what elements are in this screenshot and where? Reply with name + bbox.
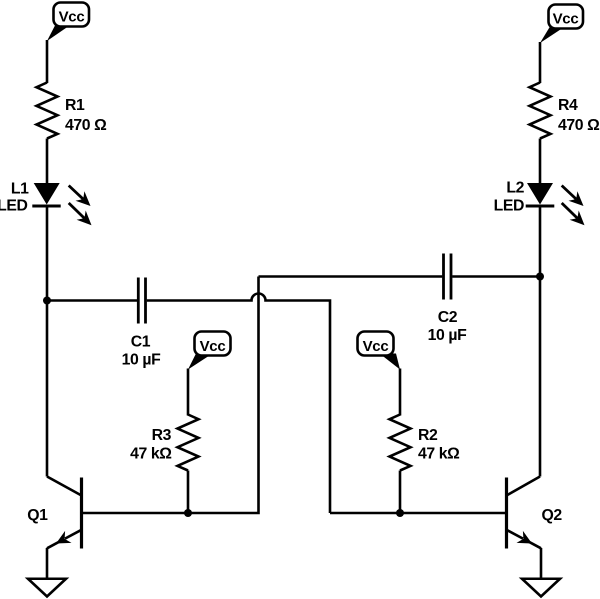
resistor R2	[390, 415, 411, 471]
power symbol Vcc (supply of R2)	[358, 332, 401, 370]
svg-text:R1: R1	[65, 97, 85, 114]
wire Q1 base rail (Q1 base to R3 node)	[82, 512, 189, 515]
wire node A to C1 left plate	[47, 299, 137, 302]
wire Q2 emitter to ground	[540, 548, 543, 579]
svg-text:10 µF: 10 µF	[122, 352, 161, 369]
capacitor C2	[444, 254, 452, 300]
power symbol Vcc (supply of R1)	[47, 3, 89, 42]
resistor R1	[37, 83, 58, 139]
wire LED L2 to node D	[539, 206, 542, 277]
svg-text:470 Ω: 470 Ω	[65, 117, 107, 134]
wire node A to Q1 collector	[46, 301, 49, 477]
svg-text:470 Ω: 470 Ω	[558, 117, 600, 134]
svg-text:Q2: Q2	[542, 507, 563, 524]
ground (Q1 emitter)	[28, 579, 66, 597]
junction node B (Q1 base / R3)	[184, 509, 192, 517]
svg-text:47 kΩ: 47 kΩ	[130, 446, 172, 463]
svg-text:Vcc: Vcc	[200, 338, 226, 355]
capacitor C1	[138, 278, 145, 324]
svg-text:L1: L1	[11, 181, 29, 198]
junction node C (Q2 base / R2)	[396, 509, 404, 517]
wire R2 to Q2 base node	[399, 471, 402, 514]
svg-text:LED: LED	[0, 198, 28, 215]
LED L1	[32, 183, 60, 206]
wire Vcc to R2	[399, 369, 402, 416]
svg-text:LED: LED	[494, 198, 524, 215]
svg-text:Vcc: Vcc	[59, 9, 85, 26]
LED L2 light emission arrows	[562, 186, 585, 226]
svg-text:47 kΩ: 47 kΩ	[418, 446, 460, 463]
wire Vcc to R3	[187, 369, 190, 416]
power symbol Vcc (supply of R4)	[540, 5, 583, 44]
ground (Q2 emitter)	[522, 579, 560, 597]
resistor R3	[178, 415, 199, 471]
wire Q2 base rail (corner to R2 node)	[330, 512, 400, 515]
wire Vcc to R4	[539, 42, 542, 83]
svg-text:Vcc: Vcc	[363, 338, 389, 355]
wire R3 to Q1 base node	[187, 471, 190, 514]
junction node A (Q1 collector / C1 plate)	[43, 297, 51, 305]
svg-text:L2: L2	[506, 180, 524, 197]
wire R4 to LED L2	[539, 139, 542, 185]
svg-text:R2: R2	[418, 427, 438, 444]
wire node D to Q2 collector	[539, 277, 542, 477]
wire riser to C2 left plate	[259, 275, 443, 278]
wire C1 right plate to Q2 base branch (hops over C2-Q1 wire)	[147, 294, 330, 514]
svg-text:R3: R3	[152, 427, 172, 444]
resistor R4	[530, 83, 551, 139]
svg-text:Vcc: Vcc	[553, 11, 579, 28]
LED L2	[526, 183, 555, 206]
transistor Q1	[47, 477, 82, 549]
svg-text:C1: C1	[131, 334, 151, 351]
wire R2 node to Q2 base	[400, 512, 505, 515]
wire C2 right plate to node D	[452, 275, 540, 278]
svg-text:R4: R4	[558, 97, 578, 114]
wire R3 node to riser corner	[188, 277, 259, 514]
power symbol Vcc (supply of R3)	[188, 332, 231, 370]
svg-text:Q1: Q1	[27, 507, 48, 524]
wire Vcc to R1	[46, 40, 49, 83]
LED L1 light emission arrows	[69, 186, 92, 226]
junction node D (Q2 collector / C2)	[536, 273, 544, 281]
wire R1 to LED L1	[46, 139, 49, 185]
transistor Q2	[507, 477, 542, 549]
svg-text:C2: C2	[438, 309, 458, 326]
wire LED L1 to node A	[46, 206, 49, 301]
wire Q1 emitter to ground	[46, 548, 49, 579]
svg-text:10 µF: 10 µF	[428, 327, 467, 344]
